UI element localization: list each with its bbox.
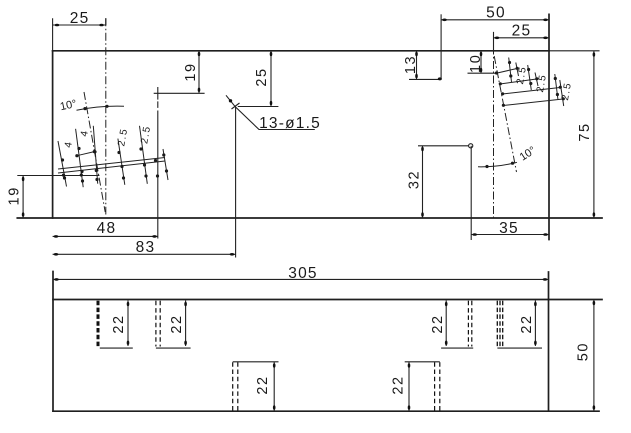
F2 xyxy=(156,301,160,347)
rows staircase xyxy=(496,69,517,74)
top plate outline xyxy=(53,50,549,52)
svg-text:2.5: 2.5 xyxy=(515,65,529,85)
dim 19 left xyxy=(17,176,99,219)
dim 25 mid xyxy=(238,51,279,107)
F6 xyxy=(497,301,502,347)
dim 50 top xyxy=(441,19,549,21)
svg-text:19: 19 xyxy=(183,62,199,81)
svg-text:13: 13 xyxy=(403,55,419,74)
svg-text:35: 35 xyxy=(499,220,519,237)
svg-text:10°: 10° xyxy=(59,98,78,113)
svg-text:10: 10 xyxy=(468,54,484,73)
10deg arc left xyxy=(77,106,125,110)
svg-text:22: 22 xyxy=(111,314,127,333)
dim 13 xyxy=(409,51,441,80)
dim 305 xyxy=(53,278,549,280)
svg-text:2.5: 2.5 xyxy=(116,127,130,147)
dim 83 xyxy=(53,253,236,255)
dim 35 xyxy=(471,234,549,236)
F3 xyxy=(233,362,238,411)
svg-text:2.5: 2.5 xyxy=(560,81,574,101)
svg-text:25: 25 xyxy=(254,67,270,86)
svg-text:22: 22 xyxy=(391,375,407,394)
svg-text:22: 22 xyxy=(519,314,535,333)
dim 50 bottom xyxy=(593,300,595,412)
leader 13-o1.5 xyxy=(226,95,315,129)
svg-text:22: 22 xyxy=(430,314,446,333)
center lines xyxy=(84,18,517,218)
ticks xyxy=(58,141,67,187)
F5 xyxy=(468,301,471,347)
35 left ext xyxy=(470,146,472,240)
50 left ext xyxy=(440,14,442,79)
dim 48 xyxy=(53,235,158,237)
83 right ext xyxy=(235,107,237,258)
svg-text:4: 4 xyxy=(63,140,75,149)
svg-text:83: 83 xyxy=(136,239,156,256)
svg-text:10°: 10° xyxy=(518,144,538,163)
svg-text:32: 32 xyxy=(407,170,423,189)
dim 75 xyxy=(593,51,595,218)
svg-text:50: 50 xyxy=(486,4,506,21)
svg-text:75: 75 xyxy=(577,122,593,141)
ticks xyxy=(509,58,512,83)
svg-text:50: 50 xyxy=(576,342,592,361)
dim 19 top xyxy=(154,51,205,94)
svg-text:48: 48 xyxy=(97,220,117,237)
svg-text:2.5: 2.5 xyxy=(535,73,549,93)
F1 xyxy=(97,301,100,347)
svg-text:4: 4 xyxy=(79,129,91,138)
10deg arc right xyxy=(478,162,517,167)
dim 25 top-right xyxy=(494,32,550,52)
svg-text:22: 22 xyxy=(169,314,185,333)
F4 xyxy=(435,362,440,411)
svg-text:13-ø1.5: 13-ø1.5 xyxy=(259,115,321,132)
svg-text:25: 25 xyxy=(512,23,532,40)
svg-text:305: 305 xyxy=(288,265,317,282)
svg-text:25: 25 xyxy=(70,10,90,27)
dim 25 top-left xyxy=(53,18,106,51)
svg-text:22: 22 xyxy=(255,375,271,394)
svg-text:2.5: 2.5 xyxy=(139,124,153,144)
svg-text:19: 19 xyxy=(6,186,22,205)
dim 32 xyxy=(418,146,469,218)
dim 10 xyxy=(468,51,498,73)
rows xyxy=(58,158,165,170)
cross marker + 48 ext line xyxy=(157,87,159,100)
